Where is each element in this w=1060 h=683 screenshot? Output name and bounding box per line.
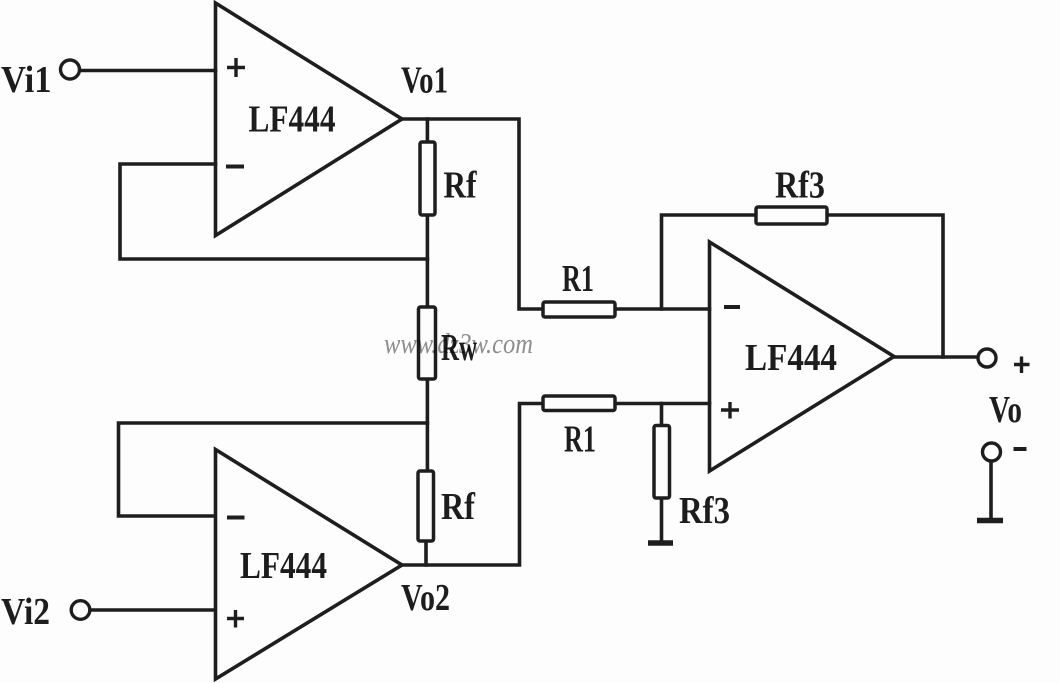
svg-text:LF444: LF444 bbox=[249, 99, 336, 141]
svg-text:Vi1: Vi1 bbox=[1, 59, 52, 101]
svg-text:Rf3: Rf3 bbox=[679, 490, 730, 532]
svg-text:Vo: Vo bbox=[989, 389, 1022, 431]
svg-text:Rf: Rf bbox=[444, 165, 478, 207]
svg-text:Rf3: Rf3 bbox=[775, 165, 825, 207]
svg-text:R1: R1 bbox=[562, 258, 594, 300]
svg-text:Vo2: Vo2 bbox=[401, 577, 450, 619]
svg-text:LF444: LF444 bbox=[240, 545, 327, 587]
svg-text:Vo1: Vo1 bbox=[401, 60, 448, 102]
svg-text:Vi2: Vi2 bbox=[1, 591, 50, 633]
svg-text:Rf: Rf bbox=[441, 486, 476, 528]
svg-text:www.dz3w.com: www.dz3w.com bbox=[384, 328, 533, 360]
svg-text:LF444: LF444 bbox=[745, 337, 837, 379]
svg-text:R1: R1 bbox=[564, 419, 596, 461]
